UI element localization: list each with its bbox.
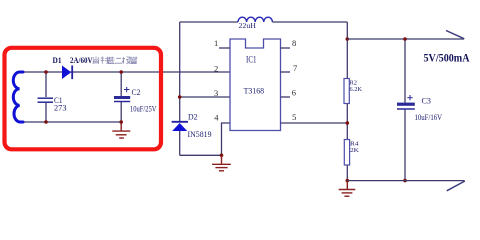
svg-text:4: 4: [214, 113, 219, 123]
svg-text:C3: C3: [422, 97, 432, 106]
wire D2 to ground node: [180, 154, 222, 156]
ground below C2: [112, 122, 130, 138]
op-amp U1 IC body T3168: [230, 39, 281, 131]
label C3 plus sign: [407, 95, 412, 100]
ground below pin 4: [212, 155, 231, 171]
svg-text:8: 8: [292, 38, 296, 48]
svg-text:D1: D1: [53, 56, 62, 65]
red highlight box: [5, 48, 162, 150]
ground below right rail: [339, 181, 356, 197]
svg-text:3: 3: [214, 88, 218, 98]
svg-text:7: 7: [293, 63, 297, 73]
wire output bottom: [347, 180, 464, 182]
capacitor C1 plates: [38, 98, 54, 102]
svg-text:5: 5: [292, 112, 296, 122]
svg-text:2A/60V: 2A/60V: [70, 56, 93, 65]
wire bottom-left rail (coil bottom to C2 ground node): [21, 121, 121, 123]
wire C1 lower lead: [45, 102, 47, 122]
inductor L1 input coil: [13, 72, 23, 122]
diode D1: [62, 65, 72, 79]
junction node C2 top: [119, 70, 123, 74]
svg-text:10uF/16V: 10uF/16V: [415, 113, 443, 122]
wire right rail between R2 and R4: [346, 104, 348, 140]
svg-text:T3168: T3168: [244, 87, 265, 96]
svg-text:D2: D2: [188, 113, 198, 122]
junction node output top: [346, 37, 350, 41]
wire IC pin 8 stub: [281, 47, 291, 49]
label D1 chinese schottky diode text: [93, 57, 137, 65]
wire top rail right segment: [272, 21, 347, 23]
wire C2 upper lead: [120, 72, 122, 96]
junction node C1 bottom: [44, 120, 48, 124]
wire top rail left segment: [180, 21, 238, 23]
svg-text:2: 2: [214, 63, 218, 73]
wire right rail below R4: [346, 165, 348, 181]
svg-text:C2: C2: [132, 88, 141, 97]
junction node C3 bottom: [403, 179, 407, 183]
wire IC pin 3 to D2 node: [180, 96, 230, 98]
output arrow bottom: [447, 181, 465, 191]
wire C1 upper lead: [45, 72, 47, 97]
diode D2: [172, 122, 188, 131]
junction node pin5 divider: [346, 121, 350, 125]
svg-text:6: 6: [292, 88, 296, 98]
junction node C1 top: [44, 70, 48, 74]
resistor R4: [344, 140, 349, 166]
wire IC pin 4 to ground node: [222, 123, 231, 155]
wire IC pin 5 to divider node: [281, 122, 348, 124]
wire output top: [347, 38, 464, 40]
inductor L2 22uH: [238, 17, 272, 22]
capacitor C2 polarized plates: [114, 96, 130, 102]
junction node rail bottom: [346, 179, 350, 183]
svg-text:273: 273: [54, 104, 67, 113]
wire top-left rail (coil top to IC pin 2): [22, 71, 231, 73]
svg-text:6.2K: 6.2K: [350, 86, 363, 93]
junction node C2 bottom: [119, 120, 123, 124]
junction node D2 pin3: [178, 95, 182, 99]
junction node pin4 ground: [220, 154, 224, 158]
svg-text:IC1: IC1: [246, 55, 257, 65]
wire D2 anode down: [179, 131, 181, 155]
wire IC pin 1 stub: [219, 47, 230, 49]
wire C3 upper lead: [404, 39, 406, 103]
resistor R2: [344, 79, 349, 104]
svg-text:10uF/25V: 10uF/25V: [130, 105, 157, 114]
svg-text:2K: 2K: [350, 147, 359, 154]
output arrow top: [446, 31, 464, 39]
label C2 plus sign: [124, 87, 130, 92]
svg-text:5V/500mA: 5V/500mA: [424, 53, 471, 65]
capacitor C3 polarized plates: [397, 103, 415, 109]
svg-text:IN5819: IN5819: [188, 130, 212, 139]
wire C2 lower lead: [120, 102, 122, 123]
wire IC pin 6 stub: [281, 96, 291, 98]
wire vertical drop from top rail to D2: [179, 22, 181, 121]
wire C3 lower lead: [404, 109, 406, 181]
svg-text:22uH: 22uH: [239, 21, 257, 30]
junction node C3 top: [403, 37, 407, 41]
wire right rail upper: [346, 22, 348, 79]
wire IC pin 7 stub: [281, 71, 291, 73]
svg-text:1: 1: [214, 38, 218, 48]
